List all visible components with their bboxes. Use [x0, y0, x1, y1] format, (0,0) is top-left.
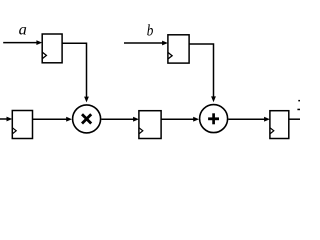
clipped glyph fragment top right	[297, 100, 300, 110]
multiplier M1	[73, 105, 101, 133]
wire R3 to multiplier	[33, 117, 73, 122]
wire a input	[3, 40, 42, 45]
register R5 (bottom right)	[270, 111, 289, 139]
wire R4 to adder	[161, 117, 199, 122]
register R1 (input a)	[42, 34, 62, 63]
wire x input	[0, 117, 12, 122]
wire R2 to adder	[189, 44, 216, 102]
wire b input	[124, 41, 168, 46]
adder A1	[200, 105, 228, 133]
register R4 (bottom middle)	[139, 111, 161, 139]
svg-text:a: a	[19, 21, 27, 38]
register R2 (input b)	[168, 35, 189, 63]
wire R1 to multiplier	[62, 43, 89, 102]
register R3 (bottom left)	[12, 111, 32, 139]
wire M1 to R4	[101, 117, 139, 122]
wire R5 output	[289, 118, 300, 120]
svg-text:b: b	[147, 22, 154, 39]
wire A1 to R5	[228, 117, 270, 122]
